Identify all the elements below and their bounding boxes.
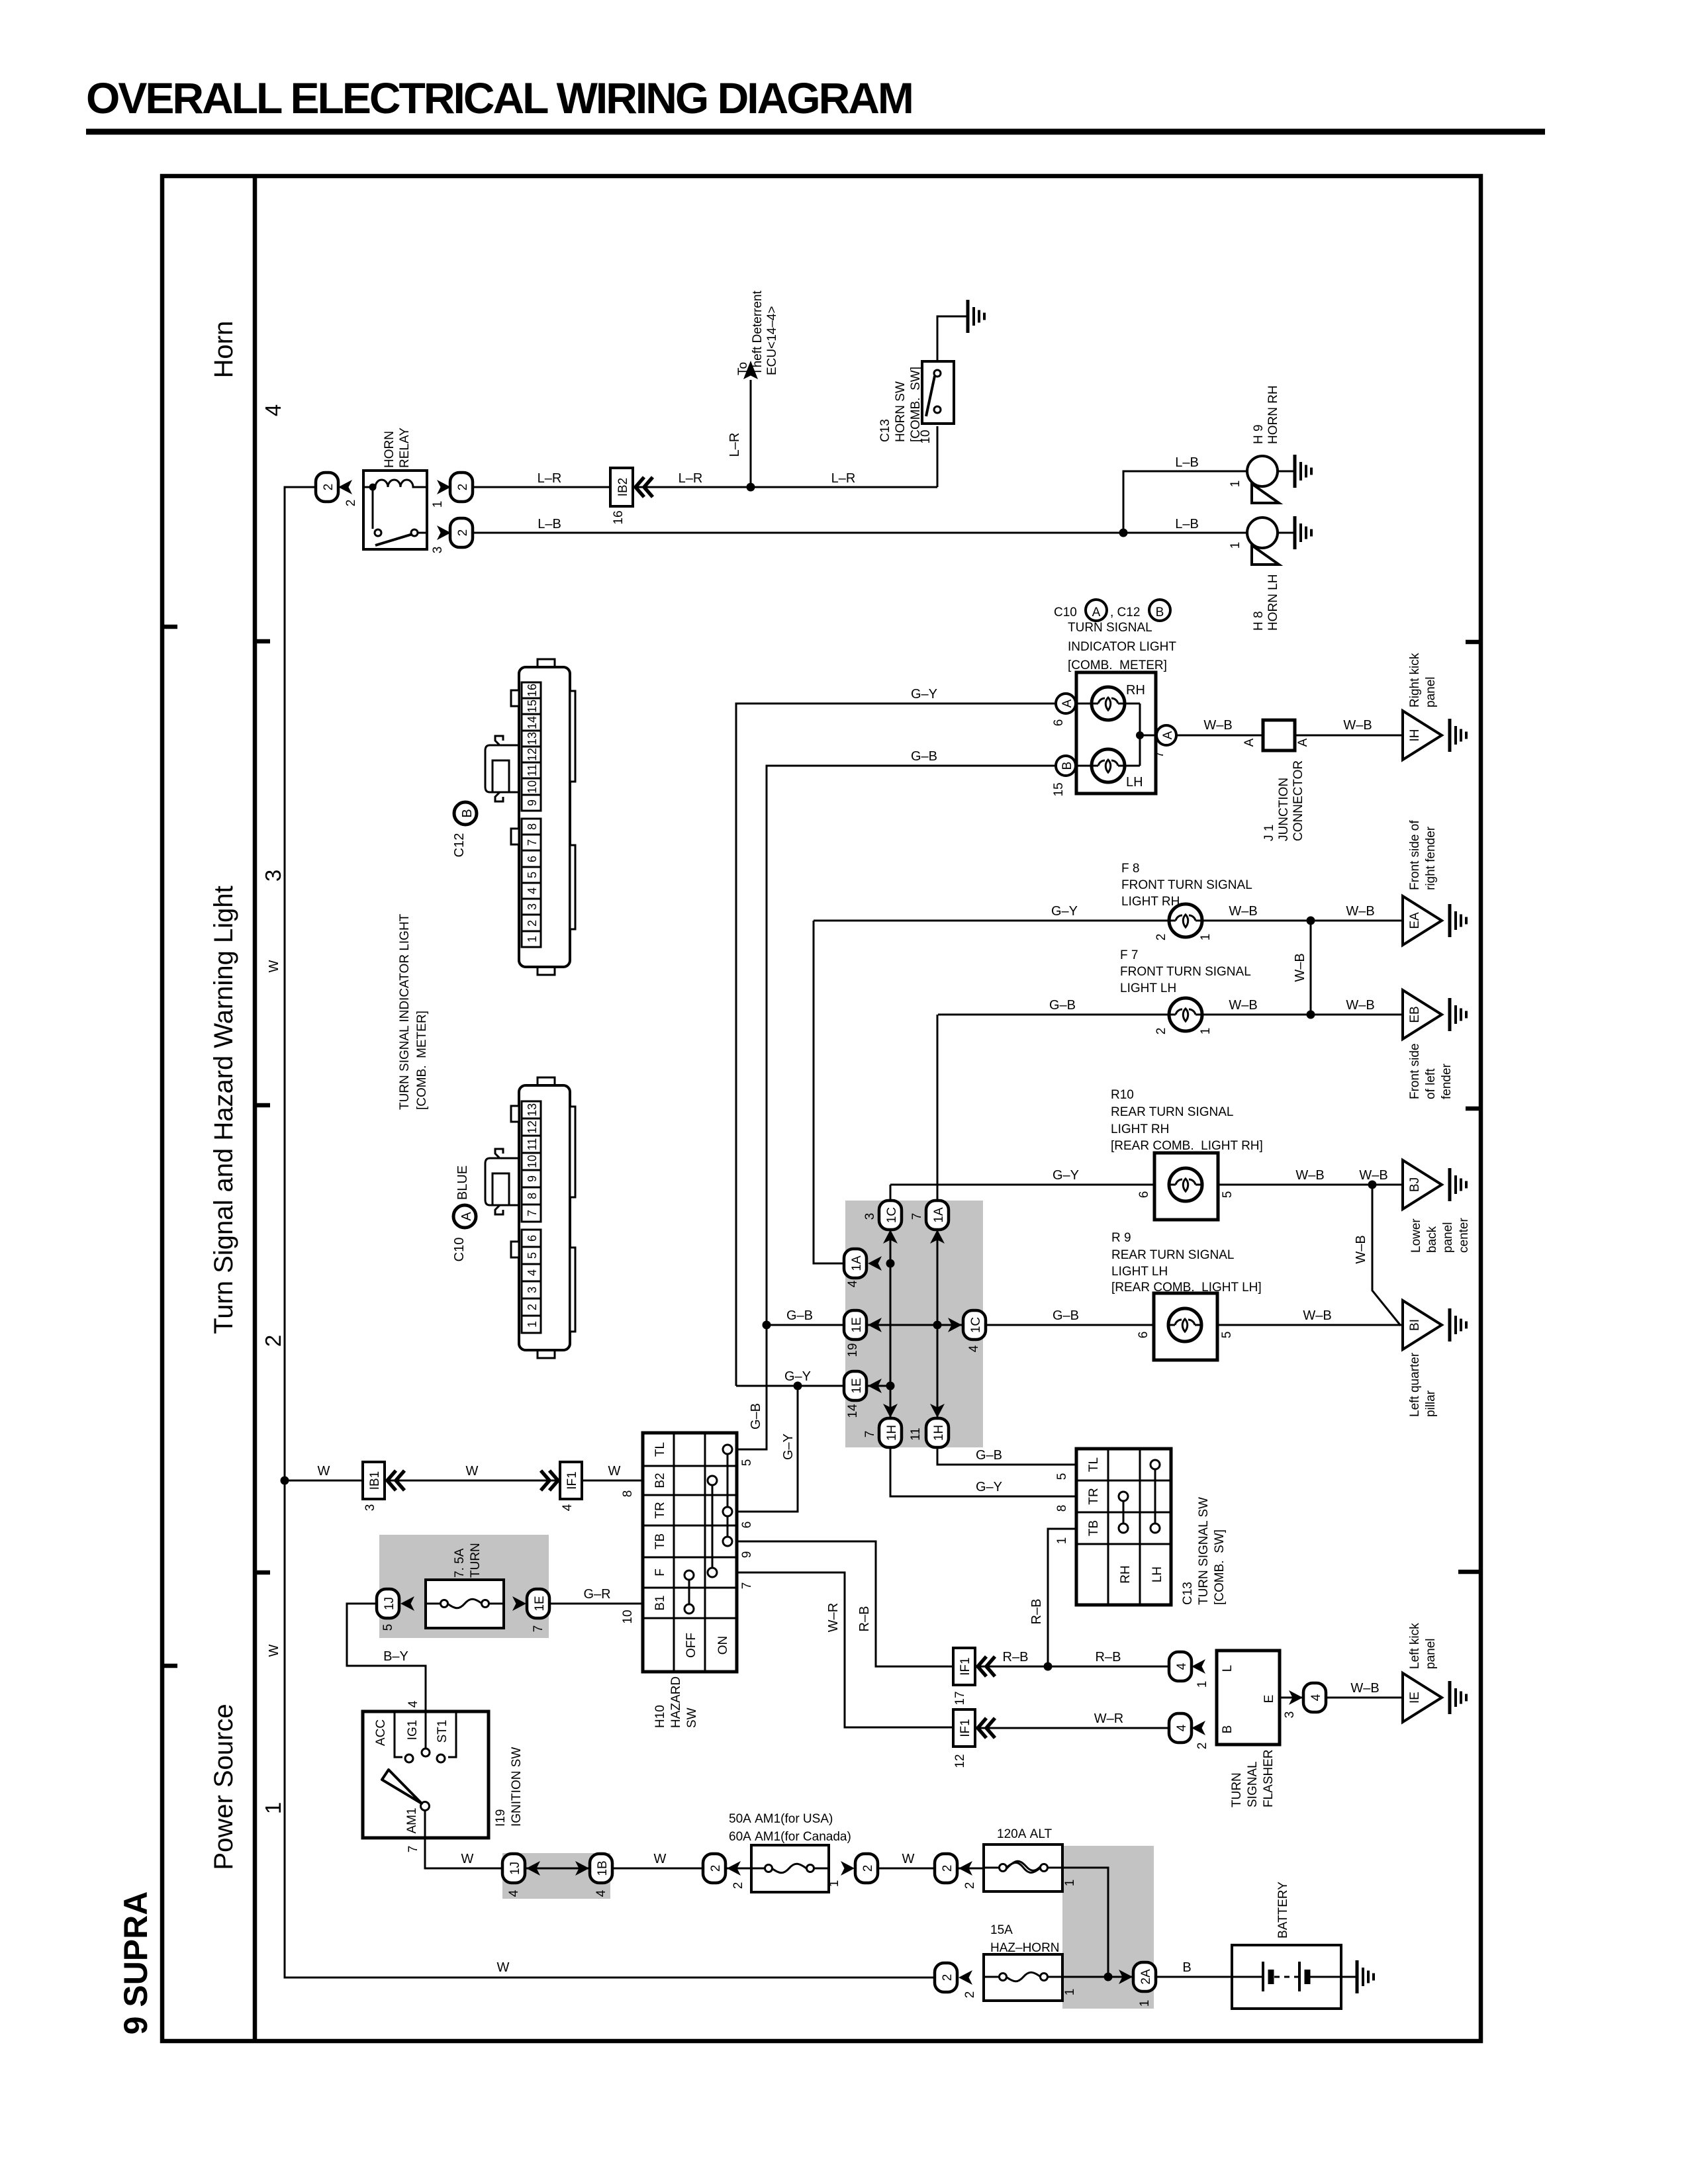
wire G-B riser to indicator B15 <box>767 766 1056 1325</box>
svg-text:[COMB. METER]: [COMB. METER] <box>415 1011 429 1110</box>
svg-text:7: 7 <box>910 1213 924 1220</box>
label TURN SIGNAL INDICATOR LIGHT COMB METER <box>1068 621 1176 672</box>
divider section tick 2/1 <box>255 1570 270 1575</box>
svg-text:FRONT TURN SIGNAL: FRONT TURN SIGNAL <box>1120 965 1251 979</box>
junction R-B <box>1044 1662 1053 1671</box>
wire 1J to ignition IG1 B-Y path <box>347 1604 426 1713</box>
connector oval 2 before AM1 fuse <box>703 1854 745 1889</box>
svg-text:2: 2 <box>1154 1028 1168 1035</box>
ignition switch AM1 pin 7 wire <box>406 1810 502 1868</box>
svg-text:6: 6 <box>1137 1191 1151 1199</box>
svg-text:R10: R10 <box>1111 1088 1134 1102</box>
title OVERALL ELECTRICAL WIRING DIAGRAM <box>86 73 912 122</box>
svg-text:8: 8 <box>1055 1505 1069 1512</box>
svg-text:W–B: W–B <box>1203 718 1232 733</box>
label To Theft Deterrent ECU <box>736 291 779 375</box>
svg-text:120A ALT: 120A ALT <box>997 1827 1052 1841</box>
svg-text:G–B: G–B <box>911 749 937 764</box>
svg-text:1: 1 <box>431 501 445 508</box>
svg-text:G–Y: G–Y <box>976 1480 1002 1494</box>
wire G-R fuse to hazard B1 <box>549 1603 643 1605</box>
svg-text:W: W <box>497 1960 510 1975</box>
svg-text:pillar: pillar <box>1424 1390 1438 1417</box>
arrow into 1A7 <box>930 1230 945 1244</box>
svg-text:HAZARD: HAZARD <box>669 1676 683 1728</box>
svg-text:fender: fender <box>1440 1063 1454 1099</box>
svg-text:W: W <box>902 1852 915 1866</box>
svg-text:L–R: L–R <box>679 471 703 486</box>
wire to theft deterrent ECU with arrow <box>743 361 758 487</box>
svg-text:W: W <box>267 1644 281 1657</box>
svg-text:1: 1 <box>1199 1028 1213 1035</box>
svg-text:1: 1 <box>1199 934 1213 941</box>
label F7 FRONT TURN SIGNAL LIGHT LH <box>1120 948 1251 995</box>
connector C10 pin numbers 6-1 <box>522 1230 541 1333</box>
svg-text:G–Y: G–Y <box>781 1433 796 1460</box>
wire G-Y main to 1E14 <box>736 1385 890 1387</box>
svg-text:G–Y: G–Y <box>784 1369 811 1384</box>
svg-text:8: 8 <box>526 823 539 830</box>
wire label G-B R9 <box>1053 1308 1079 1323</box>
svg-text:L–R: L–R <box>538 471 562 486</box>
wire label R-B after junction <box>1096 1650 1121 1664</box>
svg-text:1E: 1E <box>533 1596 547 1611</box>
svg-text:REAR TURN SIGNAL: REAR TURN SIGNAL <box>1111 1248 1234 1262</box>
svg-text:L–R: L–R <box>727 433 742 457</box>
section number 3 <box>261 870 285 882</box>
svg-text:A: A <box>1092 606 1101 619</box>
svg-text:W–B: W–B <box>1303 1308 1331 1323</box>
wire label G-R <box>583 1587 610 1602</box>
svg-text:LH: LH <box>1126 775 1143 790</box>
svg-text:1H: 1H <box>932 1425 946 1441</box>
svg-text:16: 16 <box>526 684 539 697</box>
wire label W-B F7 <box>1229 998 1257 1013</box>
fuse 7.5A TURN label <box>453 1543 483 1578</box>
svg-text:4: 4 <box>1175 1662 1189 1670</box>
svg-text:R–B: R–B <box>1096 1650 1121 1664</box>
svg-text:5: 5 <box>526 872 539 878</box>
connector C10 pin numbers 13-7 <box>522 1101 541 1222</box>
wire label L-R 3 <box>831 471 856 486</box>
svg-text:TURN: TURN <box>469 1543 483 1578</box>
svg-text:4: 4 <box>1175 1724 1189 1731</box>
svg-text:9: 9 <box>526 799 539 806</box>
svg-text:6: 6 <box>526 856 539 862</box>
svg-text:TB: TB <box>653 1533 667 1549</box>
svg-text:7: 7 <box>532 1625 545 1633</box>
ground triangle IH right kick panel <box>1403 711 1466 760</box>
svg-text:6: 6 <box>526 1235 539 1242</box>
indicator LH bulb <box>1092 749 1143 790</box>
svg-text:10: 10 <box>526 780 539 794</box>
wire B 2A to battery <box>1156 1976 1232 1978</box>
svg-text:To: To <box>736 362 750 375</box>
svg-text:HORN LH: HORN LH <box>1266 574 1280 631</box>
label I19 IGNITION SW <box>494 1747 524 1827</box>
left frame section tick 2 <box>162 1664 177 1668</box>
svg-text:H 9: H 9 <box>1252 424 1266 444</box>
svg-text:Theft Deterrent: Theft Deterrent <box>751 291 765 375</box>
svg-text:10: 10 <box>621 1610 635 1623</box>
junction G-Y riser <box>794 1382 802 1390</box>
svg-text:C10: C10 <box>452 1238 467 1262</box>
right frame section tick 2/1 <box>1458 1570 1481 1574</box>
wire label W-B F7 right <box>1346 998 1374 1013</box>
wire W-B riser BJ to BI <box>1372 1185 1401 1326</box>
svg-text:TB: TB <box>1087 1520 1101 1536</box>
svg-text:2: 2 <box>344 500 358 507</box>
F8 front turn signal light RH bulb <box>1154 904 1213 940</box>
svg-text:W: W <box>267 960 281 972</box>
horn relay coil <box>363 480 427 490</box>
svg-text:1: 1 <box>526 936 539 942</box>
svg-text:panel: panel <box>1441 1222 1455 1253</box>
indicator pin B15 <box>1052 756 1076 797</box>
svg-text:11: 11 <box>526 764 539 777</box>
svg-text:HORN RH: HORN RH <box>1266 385 1280 444</box>
label TURN SIGNAL INDICATOR LIGHT vertical <box>398 913 429 1110</box>
svg-text:7: 7 <box>863 1431 877 1438</box>
svg-text:2A: 2A <box>1139 1969 1153 1985</box>
connector oval 2A <box>1119 1962 1156 2007</box>
svg-text:1A: 1A <box>932 1207 946 1223</box>
svg-text:10: 10 <box>526 1155 539 1168</box>
connector IF1 pin 17 <box>953 1648 995 1706</box>
svg-text:ECU<14–4>: ECU<14–4> <box>765 306 779 375</box>
svg-text:12: 12 <box>526 1120 539 1134</box>
wire label W between IB1 IF1 <box>466 1464 479 1479</box>
flasher input oval L pin 1 <box>1169 1652 1209 1688</box>
horn relay box <box>363 471 427 549</box>
arrow into 1E19 <box>868 1318 882 1332</box>
label H9 HORN RH <box>1252 385 1280 444</box>
fuse 50A AM1 <box>751 1845 829 1892</box>
svg-text:panel: panel <box>1424 1639 1438 1670</box>
svg-text:1: 1 <box>1229 480 1243 488</box>
battery cells <box>1232 1962 1341 1991</box>
divider section tick 4/3 <box>255 639 270 644</box>
svg-text:ACC: ACC <box>374 1719 388 1746</box>
svg-text:6: 6 <box>1052 719 1066 727</box>
svg-text:[REAR COMB. LIGHT RH]: [REAR COMB. LIGHT RH] <box>1111 1139 1263 1153</box>
svg-text:SW: SW <box>685 1707 699 1728</box>
wire label L-R 1 <box>538 471 562 486</box>
svg-text:G–B: G–B <box>1053 1308 1079 1323</box>
right frame section tick 4/3 <box>1466 640 1481 645</box>
ignition switch I19 box <box>363 1711 489 1838</box>
svg-text:3: 3 <box>363 1504 377 1512</box>
wire W-B indicator to J1 to IH <box>1176 735 1403 737</box>
svg-text:ON: ON <box>716 1636 730 1655</box>
wire label G-Y riser <box>781 1433 796 1460</box>
connector oval 1J bottom <box>502 1854 540 1897</box>
wire label W before hazard <box>608 1464 621 1479</box>
svg-text:CONNECTOR: CONNECTOR <box>1291 760 1305 841</box>
svg-text:FRONT TURN SIGNAL: FRONT TURN SIGNAL <box>1121 878 1252 892</box>
ignition switch pin 4 label <box>406 1700 420 1707</box>
wire G-Y 1H7 to turn SW TR <box>976 1480 1069 1512</box>
hazard switch pin 8 label <box>621 1490 635 1498</box>
wire label W before IB1 <box>318 1464 330 1479</box>
svg-text:4: 4 <box>526 1269 539 1276</box>
svg-text:5: 5 <box>1055 1473 1069 1480</box>
junction 2A feed <box>1104 1973 1113 1981</box>
svg-text:1: 1 <box>1138 2000 1152 2007</box>
section number 4 <box>261 404 285 416</box>
connector oval 1H pin 7 <box>863 1418 902 1447</box>
svg-text:W: W <box>608 1464 621 1479</box>
wire AM1 fuse to ALT fuse <box>878 1868 984 1870</box>
label 120A ALT <box>997 1827 1052 1841</box>
svg-text:2: 2 <box>322 484 336 491</box>
svg-text:Horn: Horn <box>209 321 238 379</box>
svg-text:Power Source: Power Source <box>209 1704 238 1870</box>
svg-text:3: 3 <box>261 870 285 882</box>
svg-text:C12: C12 <box>452 833 467 858</box>
svg-text:3: 3 <box>431 547 445 554</box>
junction W-B BJ riser <box>1368 1181 1377 1189</box>
svg-text:4: 4 <box>594 1889 608 1897</box>
svg-text:5: 5 <box>526 1252 539 1259</box>
svg-text:[COMB. SW]: [COMB. SW] <box>1213 1529 1227 1605</box>
svg-text:L–B: L–B <box>1175 517 1199 531</box>
svg-text:12: 12 <box>526 748 539 761</box>
wire label W-R vertical <box>826 1603 841 1632</box>
junction L-B horns <box>1119 529 1128 537</box>
svg-text:15A: 15A <box>990 1923 1013 1937</box>
wire label W vertical 1 <box>267 960 281 972</box>
connector IF1 pin 12 <box>953 1709 995 1768</box>
svg-text:F 8: F 8 <box>1121 862 1139 876</box>
label J1 JUNCTION CONNECTOR <box>1262 760 1305 841</box>
gray highlight TURN fuse <box>379 1535 549 1638</box>
R9 rear turn signal light LH <box>1137 1293 1234 1360</box>
hazard switch row labels <box>653 1442 667 1611</box>
wire label W-B riser <box>1354 1235 1368 1263</box>
wire label G-B left of 1E19 <box>786 1308 813 1323</box>
svg-text:2: 2 <box>526 1304 539 1310</box>
label C10 A , C12 B <box>1054 600 1170 621</box>
connector oval 1C pin 4 <box>963 1310 986 1352</box>
wire label G-Y indicator <box>911 687 937 702</box>
svg-text:[COMB. METER]: [COMB. METER] <box>1068 659 1167 672</box>
wire label G-Y F8 <box>1051 904 1078 919</box>
horn switch riser wire <box>937 426 939 487</box>
svg-text:RELAY: RELAY <box>398 428 412 468</box>
label C10 A BLUE <box>452 1165 476 1261</box>
horn H8 LH <box>1247 518 1295 565</box>
connector oval 1A pin 7 <box>910 1201 949 1230</box>
svg-text:6: 6 <box>1137 1332 1150 1339</box>
ignition switch IG1 terminal <box>406 1713 430 1756</box>
svg-text:B2: B2 <box>653 1473 667 1488</box>
svg-text:Left kick: Left kick <box>1408 1623 1422 1669</box>
svg-text:A: A <box>1161 731 1175 739</box>
connector oval 1A pin 4 <box>844 1249 867 1287</box>
svg-text:TR: TR <box>653 1502 667 1518</box>
svg-text:4: 4 <box>261 404 285 416</box>
svg-text:EB: EB <box>1408 1006 1422 1023</box>
svg-text:7: 7 <box>526 839 539 846</box>
junction W-B F7 riser <box>1307 1011 1315 1019</box>
wire label R-B before junction <box>1003 1650 1029 1664</box>
svg-text:2: 2 <box>1154 934 1168 941</box>
ground horn H9 <box>1295 455 1311 488</box>
svg-text:W–B: W–B <box>1354 1235 1368 1263</box>
gray highlight ALT 2A <box>1062 1846 1154 2009</box>
wire ALT to 2A junction <box>1062 1868 1108 1977</box>
svg-text:6: 6 <box>740 1522 754 1529</box>
label F8 FRONT TURN SIGNAL LIGHT RH <box>1121 862 1252 909</box>
svg-text:2: 2 <box>941 1974 955 1981</box>
wire L-B branch to horn RH <box>1123 471 1247 533</box>
svg-text:14: 14 <box>526 716 539 729</box>
connector IF1 top <box>541 1462 582 1511</box>
wire W-R IF1 to flasher B <box>975 1727 1170 1729</box>
hazard switch OFF contacts F-B1 <box>684 1570 694 1614</box>
wire W-B F8 to EA <box>1202 920 1403 922</box>
ignition switch ST1 terminal <box>436 1711 456 1762</box>
wire G-B 1H11 to turn SW TL <box>976 1448 1069 1480</box>
svg-text:1: 1 <box>1055 1537 1069 1545</box>
svg-text:W–R: W–R <box>1094 1711 1123 1726</box>
horn relay pin 3 connector oval <box>431 518 473 553</box>
wire G-B hazard TL5 riser <box>737 1325 767 1466</box>
arrow into 1A4 <box>868 1256 882 1271</box>
svg-text:7: 7 <box>1152 751 1166 758</box>
svg-text:G–R: G–R <box>583 1587 610 1602</box>
svg-text:LIGHT LH: LIGHT LH <box>1120 981 1176 995</box>
wire W-B riser F8 to F7 <box>1293 921 1311 1015</box>
ground triangle EA front side of right fender <box>1403 896 1466 945</box>
svg-text:L–B: L–B <box>538 517 561 531</box>
label Lower back panel center <box>1409 1218 1471 1253</box>
connector oval 2 after AM1 fuse <box>827 1854 878 1887</box>
connector oval 1B bottom <box>575 1854 612 1897</box>
svg-text:Turn Signal and Hazard Warning: Turn Signal and Hazard Warning Light <box>209 886 238 1334</box>
svg-text:TR: TR <box>1087 1488 1101 1504</box>
junction connector J1 box <box>1243 720 1310 751</box>
ignition switch AM1 terminal and lever <box>382 1770 430 1834</box>
svg-text:7: 7 <box>406 1846 420 1853</box>
svg-text:9: 9 <box>740 1551 754 1559</box>
section number 2 <box>261 1335 285 1347</box>
wire W-B R10 to BJ <box>1218 1184 1403 1186</box>
svg-text:1: 1 <box>1229 542 1243 549</box>
svg-text:LH: LH <box>1150 1567 1164 1582</box>
svg-text:W: W <box>466 1464 479 1479</box>
svg-text:L–R: L–R <box>831 471 856 486</box>
svg-text:, C12: , C12 <box>1110 606 1140 619</box>
wire label W-B left of J1 <box>1203 718 1232 733</box>
wire label W after AM1 <box>461 1852 474 1866</box>
wire label G-B indicator <box>911 749 937 764</box>
svg-text:Front side of: Front side of <box>1408 820 1422 890</box>
svg-text:1E: 1E <box>850 1317 864 1332</box>
svg-text:4: 4 <box>561 1504 575 1511</box>
svg-text:16: 16 <box>612 510 626 524</box>
connector oval 1E pin 14 <box>844 1371 867 1418</box>
junction theft deterrent branch <box>747 483 755 492</box>
svg-text:1B: 1B <box>596 1860 610 1876</box>
ground triangle IE left kick panel <box>1403 1673 1466 1722</box>
section number 1 <box>261 1802 285 1814</box>
svg-text:I19: I19 <box>494 1809 508 1827</box>
label BATTERY <box>1276 1882 1290 1938</box>
svg-text:8: 8 <box>526 1193 539 1199</box>
turn signal indicator light box <box>1076 672 1156 794</box>
svg-text:B–Y: B–Y <box>383 1649 408 1664</box>
outer frame border <box>162 176 1481 2041</box>
svg-text:2: 2 <box>1196 1743 1209 1750</box>
wire label L-B 1 <box>538 517 561 531</box>
svg-text:G–Y: G–Y <box>1053 1168 1079 1183</box>
svg-text:19: 19 <box>846 1343 860 1357</box>
wire HAZ fuse to 2A <box>1062 1977 1133 1995</box>
wire label L-B horn LH <box>1175 517 1199 531</box>
junction W-B F8 riser <box>1307 917 1315 925</box>
svg-text:15: 15 <box>526 700 539 713</box>
svg-text:4: 4 <box>1309 1694 1323 1701</box>
svg-text:IF1: IF1 <box>565 1471 579 1489</box>
svg-text:8: 8 <box>621 1490 635 1498</box>
svg-text:L: L <box>1221 1665 1235 1672</box>
connector oval 1C pin 3 <box>863 1201 902 1230</box>
wire 1J to 1B <box>525 1868 590 1870</box>
fuse 7.5A TURN <box>426 1580 504 1628</box>
label Front side of left fender <box>1408 1044 1454 1099</box>
svg-text:W–B: W–B <box>1346 904 1374 919</box>
fuse 15A HAZ-HORN <box>984 1954 1062 2001</box>
svg-text:17: 17 <box>953 1691 967 1705</box>
label Left kick panel <box>1408 1623 1438 1669</box>
arrow into 1H11 <box>930 1404 945 1418</box>
svg-text:2: 2 <box>709 1865 723 1872</box>
svg-text:G–Y: G–Y <box>1051 904 1078 919</box>
svg-text:panel: panel <box>1424 677 1438 708</box>
svg-text:9 SUPRA: 9 SUPRA <box>117 1891 154 2035</box>
label Right kick panel <box>1408 653 1438 707</box>
svg-text:15: 15 <box>1052 782 1066 796</box>
svg-text:50A AM1(for USA): 50A AM1(for USA) <box>729 1812 833 1826</box>
turn signal flasher box <box>1217 1651 1280 1745</box>
wire label W-B F8 <box>1229 904 1257 919</box>
svg-text:W–B: W–B <box>1359 1168 1387 1183</box>
svg-text:5: 5 <box>1220 1332 1234 1339</box>
horn switch ground wire <box>937 316 968 361</box>
wire label L-B horn RH <box>1175 455 1199 470</box>
svg-text:1C: 1C <box>969 1317 983 1333</box>
svg-text:5: 5 <box>740 1459 754 1467</box>
left frame section tick 1 <box>162 625 177 629</box>
wire label L-R 2 <box>679 471 703 486</box>
label R10 REAR TURN SIGNAL LIGHT RH <box>1111 1088 1263 1153</box>
indicator internal wiring <box>1076 704 1166 766</box>
wire label W vertical 2 <box>267 1644 281 1657</box>
svg-text:W–B: W–B <box>1229 998 1257 1013</box>
svg-text:TURN SIGNAL SW: TURN SIGNAL SW <box>1197 1497 1211 1605</box>
wire R-B IF1 to flasher L <box>975 1666 1170 1668</box>
svg-text:center: center <box>1457 1218 1471 1253</box>
ground triangle BJ lower back panel center <box>1403 1160 1466 1209</box>
battery box <box>1232 1945 1341 2009</box>
svg-text:A: A <box>1060 699 1074 707</box>
connector oval 1E fuse <box>512 1589 549 1632</box>
svg-text:12: 12 <box>953 1754 967 1768</box>
section label Power Source <box>209 1704 238 1870</box>
ground triangle BI left quarter pillar <box>1403 1300 1466 1349</box>
